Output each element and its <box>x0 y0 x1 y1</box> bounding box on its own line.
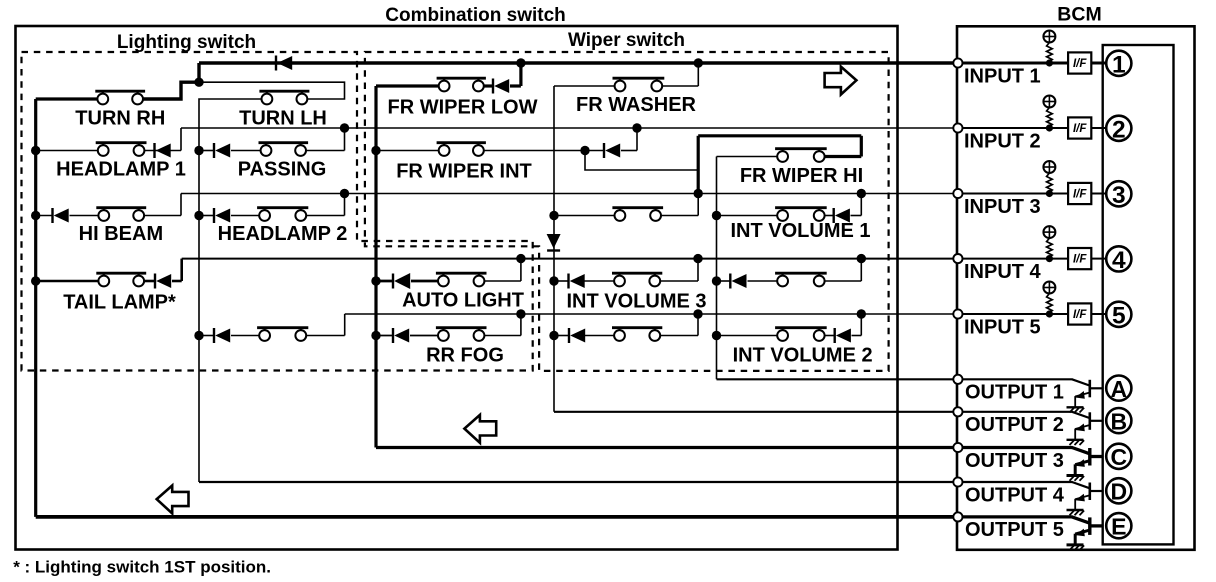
svg-text:TAIL LAMP*: TAIL LAMP* <box>63 292 176 314</box>
svg-text:INPUT 1: INPUT 1 <box>964 66 1041 88</box>
svg-text:Combination switch: Combination switch <box>385 5 566 26</box>
svg-text:INT VOLUME 2: INT VOLUME 2 <box>733 345 873 367</box>
svg-text:A: A <box>1110 376 1127 402</box>
svg-text:I/F: I/F <box>1073 58 1087 70</box>
svg-text:INT VOLUME 3: INT VOLUME 3 <box>566 291 706 313</box>
svg-text:FR WIPER LOW: FR WIPER LOW <box>388 97 538 119</box>
svg-text:B: B <box>1110 408 1127 434</box>
svg-text:OUTPUT 2: OUTPUT 2 <box>965 414 1064 436</box>
svg-text:2: 2 <box>1112 117 1126 144</box>
svg-text:Lighting switch: Lighting switch <box>117 32 256 53</box>
svg-text:PASSING: PASSING <box>238 159 327 181</box>
svg-text:HEADLAMP 1: HEADLAMP 1 <box>56 159 186 181</box>
svg-text:HI BEAM: HI BEAM <box>79 223 163 245</box>
svg-text:INPUT 3: INPUT 3 <box>964 196 1041 218</box>
svg-text:OUTPUT 1: OUTPUT 1 <box>965 382 1064 404</box>
svg-text:1: 1 <box>1112 52 1126 79</box>
svg-text:4: 4 <box>1112 247 1126 274</box>
svg-text:OUTPUT 4: OUTPUT 4 <box>965 484 1065 506</box>
svg-text:* : Lighting switch 1ST positi: * : Lighting switch 1ST position. <box>13 558 271 577</box>
svg-text:D: D <box>1110 479 1127 505</box>
svg-text:I/F: I/F <box>1073 309 1087 321</box>
svg-text:FR WIPER INT: FR WIPER INT <box>396 161 532 183</box>
svg-text:INPUT 2: INPUT 2 <box>964 131 1041 153</box>
svg-text:5: 5 <box>1112 303 1126 330</box>
svg-text:INPUT 4: INPUT 4 <box>964 261 1042 283</box>
svg-text:BCM: BCM <box>1057 4 1101 26</box>
svg-text:TURN LH: TURN LH <box>239 108 327 130</box>
svg-text:HEADLAMP 2: HEADLAMP 2 <box>218 223 348 245</box>
svg-text:I/F: I/F <box>1073 254 1087 266</box>
svg-text:OUTPUT 3: OUTPUT 3 <box>965 450 1064 472</box>
svg-text:3: 3 <box>1112 182 1126 209</box>
svg-text:Wiper switch: Wiper switch <box>568 30 685 51</box>
svg-text:INT VOLUME 1: INT VOLUME 1 <box>730 220 870 242</box>
svg-text:FR WASHER: FR WASHER <box>576 94 697 116</box>
svg-text:OUTPUT 5: OUTPUT 5 <box>965 519 1064 541</box>
svg-text:E: E <box>1111 514 1126 540</box>
svg-text:RR FOG: RR FOG <box>426 345 504 367</box>
svg-text:I/F: I/F <box>1073 189 1087 201</box>
svg-text:I/F: I/F <box>1073 123 1087 135</box>
svg-text:INPUT 5: INPUT 5 <box>964 317 1041 339</box>
svg-text:TURN RH: TURN RH <box>75 108 165 130</box>
svg-text:C: C <box>1110 444 1127 470</box>
svg-text:AUTO LIGHT: AUTO LIGHT <box>402 290 524 312</box>
svg-text:FR WIPER HI: FR WIPER HI <box>740 165 863 187</box>
